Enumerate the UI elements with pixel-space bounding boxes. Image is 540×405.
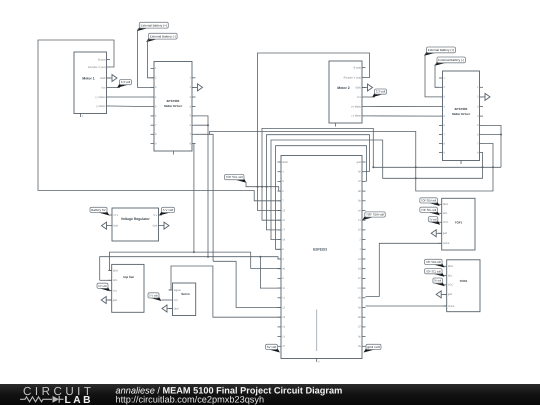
- svg-text:12 V: 12 V: [113, 214, 118, 217]
- wire net E long: [210, 131, 493, 191]
- flag TOF1 gnd: [436, 232, 442, 234]
- svg-text:Xshut: Xshut: [448, 305, 455, 308]
- svg-text:5V volt: 5V volt: [267, 345, 277, 349]
- svg-text:B (out): B (out): [354, 66, 362, 69]
- wire U1 pin7 down: [196, 134, 214, 261]
- junction L2 x208: [207, 256, 209, 258]
- svg-text:TOF SCL volt: TOF SCL volt: [226, 175, 243, 179]
- mcu ESP32S3 inner line: [316, 310, 318, 352]
- sensor TOF2: [447, 260, 480, 312]
- wire H1: [373, 166, 501, 168]
- wire TOF SCL pill line: [246, 182, 281, 191]
- wire esp TOF1 xshut: [366, 243, 442, 296]
- mcu ESP32S3 pins: [278, 161, 282, 163]
- wire U2 pin5 loop: [483, 125, 501, 167]
- net flag 5V out: [159, 211, 170, 216]
- wire ext batt + to BTS1 pin2: [138, 29, 155, 88]
- wire L4 servo signal: [169, 266, 282, 317]
- net flag TOF SCL 1: [428, 210, 439, 215]
- wire ext batt - to BTS1 pin1: [148, 39, 155, 78]
- junction pill line b: [261, 186, 263, 188]
- motor driver U2 pins: [439, 77, 443, 79]
- wire L2: [100, 257, 281, 281]
- svg-text:gnd volt: gnd volt: [367, 345, 380, 349]
- net flag External Battery (+) left: [137, 26, 148, 31]
- wire L1: [110, 252, 282, 270]
- svg-text:Servo: Servo: [181, 292, 190, 296]
- svg-text:(-) Motor: (-) Motor: [96, 105, 106, 108]
- wire L2 tophat stub: [100, 279, 112, 281]
- wire M1 encoder to left bus: [38, 40, 281, 201]
- net flag 5V esp: [269, 348, 280, 353]
- net flag 5V TOF2: [433, 281, 444, 286]
- wire C nested2: [267, 135, 370, 230]
- wire A nested: [262, 128, 373, 220]
- junction L1 pin8: [193, 251, 195, 253]
- svg-text:SCL: SCL: [113, 279, 118, 282]
- svg-text:TOF SDA volt: TOF SDA volt: [426, 260, 441, 264]
- net flag Battery 5V: [98, 211, 109, 216]
- svg-text:SCL: SCL: [443, 212, 448, 215]
- svg-text:gnd: gnd: [113, 299, 118, 302]
- svg-text:Xshut: Xshut: [443, 242, 450, 245]
- svg-text:(+) Motor: (+) Motor: [351, 105, 361, 108]
- mcu ESP32S3 bottom pin: [316, 359, 318, 363]
- net flag 5V servo: [150, 296, 161, 301]
- voltage regulator VR1: [112, 208, 159, 241]
- svg-text:Vcc: Vcc: [101, 86, 106, 89]
- junction U2 loop: [500, 134, 502, 136]
- svg-text:Motor Driver: Motor Driver: [452, 112, 471, 116]
- svg-text:BTS7960: BTS7960: [455, 107, 468, 111]
- wire L2 branch p14: [260, 257, 281, 288]
- flag servo gnd: [167, 308, 173, 310]
- net flag External Battery (+) right: [424, 51, 435, 56]
- svg-text:External Battery (-): External Battery (-): [438, 58, 464, 62]
- svg-text:SDA: SDA: [443, 203, 448, 206]
- junction H2 a: [415, 177, 417, 179]
- svg-text:TOF SCL volt: TOF SCL volt: [421, 208, 436, 212]
- svg-text:5V volt: 5V volt: [98, 285, 107, 288]
- svg-text:TOF SDA volt: TOF SDA volt: [366, 213, 384, 217]
- svg-text:Gnd: Gnd: [174, 307, 179, 310]
- footer bar: [0, 384, 540, 405]
- sensor TOF2 pins: [443, 265, 447, 267]
- wire M2 Vcc stub: [366, 96, 376, 98]
- svg-text:gnd: gnd: [443, 232, 448, 235]
- svg-text:gnd: gnd: [448, 293, 453, 296]
- junction A right: [372, 166, 374, 168]
- svg-text:GND: GND: [282, 161, 288, 164]
- motor driver U2 BTS7960: [443, 71, 480, 161]
- svg-text:gnd: gnd: [357, 161, 362, 164]
- junction U1 pin6: [207, 124, 209, 126]
- svg-text:5 V volt: 5 V volt: [163, 208, 174, 212]
- wire U1 pin8 down: [194, 144, 196, 253]
- svg-text:TOF2: TOF2: [459, 279, 467, 283]
- svg-text:Motor Driver: Motor Driver: [164, 104, 183, 108]
- wire U2 pin8 H2: [271, 140, 483, 240]
- svg-text:Voltage Regulator: Voltage Regulator: [121, 217, 150, 221]
- net flag TOF SDA esp: [362, 215, 373, 220]
- svg-text:SDA: SDA: [113, 269, 118, 272]
- svg-text:5 V volt: 5 V volt: [149, 295, 158, 298]
- svg-text:External Battery (+): External Battery (+): [428, 48, 454, 52]
- motor M2: [329, 61, 362, 123]
- module top hat: [112, 264, 144, 312]
- motor driver U1 pins: [151, 67, 155, 69]
- svg-text:GND: GND: [100, 77, 106, 80]
- motor driver U1 BTS7960: [154, 62, 192, 152]
- motor M1 pins: [107, 59, 111, 61]
- svg-text:ESP32S3: ESP32S3: [313, 248, 327, 252]
- svg-text:(-) Motor: (-) Motor: [352, 115, 362, 118]
- servo pins: [169, 289, 173, 291]
- svg-text:Battery 5V: Battery 5V: [91, 208, 105, 212]
- flag U2 output: [480, 96, 486, 98]
- svg-text:http://circuitlab.com/ce2pmxb2: http://circuitlab.com/ce2pmxb23qsyh: [116, 395, 265, 405]
- wire L3: [213, 261, 281, 307]
- net flag TOF SDA 2: [433, 263, 444, 268]
- mcu ESP32S3: [281, 156, 362, 359]
- svg-text:TOF SCL volt: TOF SCL volt: [426, 269, 441, 273]
- svg-text:5V volt: 5V volt: [434, 280, 441, 283]
- svg-text:SDA: SDA: [448, 265, 453, 268]
- junction H1 a: [415, 166, 417, 168]
- motor driver U2 bottom pin: [460, 161, 462, 165]
- svg-text:Motor 1: Motor 1: [82, 76, 94, 80]
- svg-text:SCL: SCL: [448, 274, 453, 277]
- servo SV1: [173, 283, 196, 316]
- svg-text:Encoder V (out): Encoder V (out): [88, 66, 106, 69]
- wire M1 - motor to U1: [110, 105, 151, 108]
- net flag gnd esp: [364, 348, 375, 353]
- svg-text:3.3 volt: 3.3 volt: [376, 90, 386, 94]
- svg-text:(+) Motor: (+) Motor: [95, 96, 105, 99]
- net flag TOF SCL mid: [235, 178, 246, 183]
- flag M2 GND: [362, 87, 368, 89]
- flag VR gnd right: [159, 225, 165, 227]
- flag TOF2 gnd: [441, 293, 447, 295]
- wire ext batt - to U2 pin1: [435, 63, 439, 87]
- svg-text:GND: GND: [356, 86, 362, 89]
- svg-text:Gnd: Gnd: [113, 224, 118, 227]
- svg-text:LAB: LAB: [65, 395, 91, 405]
- wire D nested: [276, 146, 367, 250]
- sensor TOF1: [442, 198, 475, 250]
- svg-text:3.3 volt: 3.3 volt: [121, 80, 131, 84]
- wire servo vcc: [162, 299, 170, 301]
- net flag 3.3 volt M1: [117, 83, 128, 88]
- flag tophat gnd: [106, 299, 112, 301]
- svg-text:Signal: Signal: [174, 289, 181, 292]
- svg-text:Gnd: Gnd: [153, 224, 158, 227]
- logo resistor and diode: [20, 397, 64, 402]
- junction H1 d: [482, 166, 484, 168]
- wire U1 pin5 loop: [196, 116, 209, 125]
- svg-text:TOF1: TOF1: [455, 220, 463, 224]
- net flag 5V TOF1: [429, 220, 440, 225]
- flag M1 GND: [107, 77, 113, 79]
- junction H1 c: [492, 166, 494, 168]
- svg-text:Vcc: Vcc: [357, 96, 362, 99]
- wire esp TOF2 xshut: [366, 305, 447, 307]
- wire U1 pin6 down: [207, 125, 209, 257]
- flag U1 output: [192, 86, 198, 88]
- svg-text:External Battery (-): External Battery (-): [150, 34, 176, 38]
- module top hat pins: [108, 270, 112, 272]
- motor M2 bottom pin: [335, 123, 337, 127]
- motor driver U1 bottom pin: [173, 151, 175, 155]
- svg-text:VCC: VCC: [443, 221, 448, 224]
- net flag External Battery (-) right: [435, 61, 446, 66]
- wire tophat vcc: [107, 290, 112, 292]
- wire M1 + motor to U1: [110, 96, 151, 98]
- junction L2 branch: [259, 256, 261, 258]
- flag VR gnd left: [107, 225, 113, 227]
- motor M1: [74, 52, 107, 114]
- wire L1 tophat stub: [110, 270, 112, 272]
- net flag 5V tophat: [99, 286, 110, 291]
- net flag TOF SCL 2: [433, 272, 444, 277]
- svg-text:5V volt: 5V volt: [430, 218, 437, 221]
- net flag External Battery (-) left: [146, 37, 157, 42]
- wire M1 Vcc stub: [110, 87, 120, 89]
- motor M1 bottom pin: [80, 114, 82, 118]
- svg-text:5 V: 5 V: [154, 214, 158, 217]
- voltage regulator pins: [109, 214, 113, 216]
- junction pill line a: [257, 186, 259, 188]
- sensor TOF1 pins: [438, 203, 442, 205]
- svg-text:top hat: top hat: [123, 275, 133, 279]
- wire M2 + motor to U2: [366, 106, 440, 108]
- wire M2 encoder long: [258, 53, 370, 211]
- svg-text:External Battery (+): External Battery (+): [141, 23, 167, 27]
- svg-text:Motor 2: Motor 2: [337, 86, 349, 90]
- svg-text:TOF SDA volt: TOF SDA volt: [421, 199, 436, 203]
- wire ext batt + to U2 pin2: [425, 53, 439, 97]
- wire U2 pin6: [483, 134, 501, 136]
- motor M2 pins: [362, 67, 366, 69]
- net flag 3.3 volt M2: [372, 92, 383, 97]
- svg-text:VCC: VCC: [448, 284, 453, 287]
- svg-text:Encoder V (out): Encoder V (out): [344, 76, 362, 79]
- net flag TOF SDA 1: [428, 201, 439, 206]
- svg-text:B (out): B (out): [98, 58, 106, 61]
- wire M2 - motor to U2: [366, 115, 440, 117]
- svg-text:BTS7960: BTS7960: [167, 99, 180, 103]
- junction pill line c: [266, 186, 268, 188]
